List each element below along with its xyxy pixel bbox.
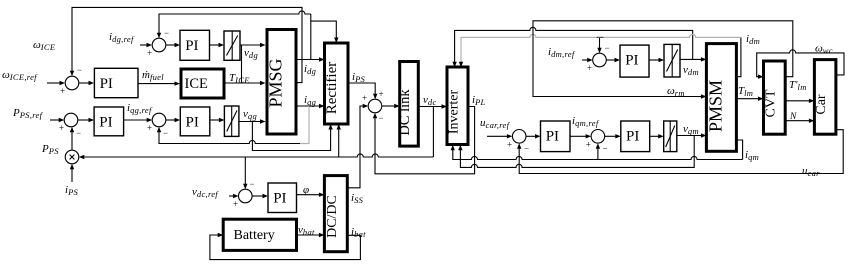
limiter SAT1 [224, 31, 240, 60]
wire PMSG to Rectifier (i_dg) [297, 59, 320, 61]
wire i_SS from DCDC up to J6 [347, 106, 363, 188]
controller PI3 [94, 107, 124, 136]
generator PMSG [267, 30, 296, 135]
svg-text:Rectifier: Rectifier [324, 62, 340, 114]
wire omega_wc from Car to CVT [757, 50, 844, 77]
dc link block [400, 62, 419, 147]
svg-text:DC link: DC link [397, 89, 413, 136]
wire PI3 to J4 [124, 119, 147, 121]
svg-text:+: + [147, 123, 152, 133]
gearbox CVT [764, 61, 786, 134]
svg-text:−: − [76, 128, 81, 138]
controller PI2 [180, 30, 210, 60]
wire i_dm feedback down into J8 [599, 37, 601, 48]
wire u_car from Car to J7 [519, 130, 843, 174]
svg-text:PI: PI [626, 129, 639, 145]
wire v_dg down-branch [241, 45, 243, 83]
svg-text:−: − [163, 128, 168, 138]
wire Battery to DCDC (v_bat) [297, 234, 320, 236]
svg-text:Battery: Battery [234, 228, 275, 243]
wire J3 to PI3 [78, 119, 89, 121]
svg-text:+: + [362, 93, 367, 103]
summing junction J6 [368, 99, 382, 113]
svg-text:−: − [524, 144, 529, 154]
svg-text:PI: PI [185, 38, 198, 54]
wire P_PS_ref into J3 [50, 119, 59, 121]
wire omega_ICE_ref into J1 [47, 82, 60, 84]
wire i_dg feedback horizontal to J2 with hop [159, 11, 311, 33]
svg-text:−: − [164, 28, 169, 38]
summing junction J5 [239, 189, 253, 203]
wire PI1 to ICE [138, 83, 175, 85]
wire J8 to PI7 [606, 59, 615, 61]
svg-text:PMSM: PMSM [705, 80, 725, 132]
svg-text:+: + [587, 63, 592, 73]
inverter block [447, 67, 468, 145]
controller PI8 [621, 121, 650, 152]
svg-text:+: + [147, 48, 152, 58]
controller PI7 [620, 45, 649, 77]
wire J7 to PI6 [526, 135, 536, 137]
wire i_qm from PMSM to line [736, 140, 742, 160]
svg-text:+: + [59, 123, 64, 133]
summing junction J3 [64, 113, 78, 127]
wire SAT3 to PMSM (v_dm) [680, 58, 701, 60]
wire v_dc feedback long line with hops [84, 154, 433, 157]
controller PI1 [94, 68, 138, 97]
wire J4 to PI4 [166, 119, 175, 121]
wire PMSG to Rectifier (i_qg) [297, 105, 320, 107]
wire CVT to Car (N) [785, 120, 809, 122]
wire v_qm branch down to Inverter bottom [460, 136, 694, 168]
svg-text:−: − [379, 113, 384, 123]
wire SAT4 to PMSM (v_qm) [677, 135, 702, 137]
controller PI5 [268, 183, 297, 213]
wire PI6 to J9 [570, 135, 586, 137]
engine ICE [181, 69, 224, 98]
svg-text:PI: PI [100, 76, 113, 92]
wire omega_ICE feedback stub from PMSG [72, 7, 302, 82]
wire J5 to PI5 [252, 195, 263, 197]
summing junction J8 [593, 53, 607, 67]
wire Rectifier to J6 (i_PS) [348, 83, 375, 94]
wire SAT2 to PMSG (v_qg) [239, 121, 261, 123]
svg-text:+: + [586, 139, 591, 149]
wire omega_rm from CVT around top into PMSM [533, 21, 793, 97]
wire i_bat loop from DCDC to Battery [210, 235, 361, 260]
wire PI2 to SAT1 [210, 44, 220, 46]
svg-text:−: − [250, 179, 255, 189]
svg-text:Inverter: Inverter [447, 90, 462, 135]
limiter SAT4 [664, 121, 677, 152]
limiter SAT2 [224, 106, 239, 136]
wire i_PS stub into X [71, 169, 73, 182]
svg-text:CVT: CVT [763, 89, 778, 117]
wire i_PL loop to J6 bottom [375, 107, 475, 174]
wire i_qm up into J9 [597, 148, 599, 160]
wire v_dc down to J5 [244, 157, 246, 184]
wire v_dm branch up to Inverter top [455, 27, 693, 62]
wire v_dc_ref into J5 [229, 195, 234, 197]
summing junction J9 [591, 130, 605, 144]
summing junction J1 [65, 76, 79, 90]
summing junction J4 [152, 113, 166, 127]
svg-text:DC/DC: DC/DC [325, 195, 340, 238]
wire J9 to PI8 [605, 135, 616, 137]
svg-text:PI: PI [273, 191, 286, 207]
battery block [223, 219, 296, 250]
wire ICE to PMSG (T_ICE) [224, 82, 261, 84]
wire PI8 to SAT4 [650, 135, 659, 137]
controller PI6 [541, 121, 571, 152]
wire i_qm long feedback line with hops [453, 150, 743, 160]
svg-text:−: − [77, 65, 82, 75]
wire X to J3 (P_PS feedback) [71, 132, 73, 150]
wire CVT to Car (T'_lm) [785, 100, 809, 102]
wire i_dg feedback tap up [310, 14, 312, 60]
wire i_dm from PMSM up (black) [736, 37, 741, 76]
dcdc converter block [324, 176, 347, 252]
vehicle Car [814, 60, 836, 135]
multiplier X [65, 150, 79, 164]
svg-text:PI: PI [186, 115, 199, 131]
svg-text:PMSG: PMSG [266, 58, 286, 107]
wire i_dm_ref into J8 [582, 59, 588, 61]
wire i_dg branch to Rectifier top [311, 21, 337, 38]
summing junction J2 [152, 38, 166, 52]
wire DC link to Inverter (v_dc) [418, 106, 442, 108]
svg-text:PI: PI [546, 129, 559, 145]
wire v_dc branch down [432, 107, 434, 158]
svg-text:+: + [379, 89, 384, 99]
wire u_car_ref into J7 [487, 135, 507, 137]
svg-text:−: − [605, 43, 610, 53]
wire J6 to DC link [382, 105, 395, 107]
svg-text:PI: PI [625, 53, 638, 69]
limiter SAT3 [664, 44, 680, 77]
svg-text:PI: PI [99, 115, 112, 131]
wire PI5 to DCDC [297, 194, 320, 196]
summing junction J7 [512, 130, 526, 144]
wire i_dm long gray line to Inverter top [461, 34, 741, 62]
wire i_dg_ref into J2 [140, 44, 147, 46]
wire PI4 to SAT2 [210, 119, 220, 121]
wire J2 to PI2 [166, 44, 175, 46]
controller PI4 [180, 107, 210, 136]
svg-text:+: + [507, 139, 512, 149]
svg-text:+: + [60, 86, 65, 96]
wire v_dc into Rectifier bottom [338, 129, 340, 157]
svg-text:Car: Car [814, 94, 829, 115]
rectifier [325, 43, 349, 124]
wire PI7 to SAT3 [649, 59, 659, 61]
wire PMSM to CVT (T_lm) [736, 98, 758, 100]
svg-text:ICE: ICE [185, 76, 209, 92]
wire i_qg feedback tap down (gray) [300, 106, 309, 144]
svg-text:−: − [603, 144, 608, 154]
wire SAT1 to PMSG (v_dg) [240, 44, 261, 46]
svg-text:+: + [233, 199, 238, 209]
wire v_qg branch to Rectifier bottom [252, 122, 330, 151]
motor PMSM [706, 44, 736, 152]
wire i_qg feedback horizontal to J4 with hop [159, 132, 300, 144]
wire J1 to PI1 [79, 82, 89, 84]
